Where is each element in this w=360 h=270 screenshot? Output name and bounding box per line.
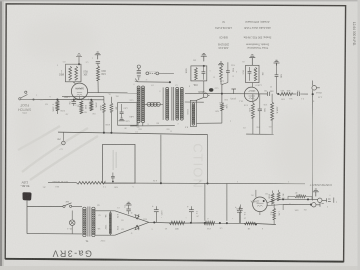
jack J4 — [197, 93, 210, 100]
label B3 — [242, 71, 264, 76]
transformer T1 primary — [83, 207, 86, 236]
node bus183 b — [206, 182, 208, 184]
wire box to tube — [73, 82, 76, 84]
wire drop 207 — [207, 135, 209, 184]
capacitor C12 — [222, 62, 230, 84]
speaker box — [190, 100, 196, 126]
box B1 — [66, 64, 82, 82]
wire box bottom — [197, 122, 222, 124]
capacitor C21 — [187, 206, 197, 223]
edge note text — [352, 22, 356, 46]
node B+ e — [226, 222, 228, 224]
label R12 — [52, 104, 54, 112]
label R9 value — [59, 70, 64, 75]
wire switch to T1 — [72, 205, 82, 207]
capacitor C14 — [258, 94, 262, 118]
resistor R22 — [220, 65, 223, 84]
node R14 — [90, 99, 92, 101]
resistor R32 — [269, 208, 279, 220]
wire C5 to R16 — [97, 63, 99, 66]
transformer T3 secondary — [176, 87, 179, 120]
label heater — [104, 214, 118, 231]
ground G2 — [95, 52, 101, 59]
capacitor C25 — [236, 205, 243, 215]
label R25 — [280, 89, 290, 91]
wire B3 to V4 — [251, 83, 253, 88]
label R23 — [248, 108, 250, 112]
resistor R29 — [244, 222, 255, 229]
ground G7 — [313, 189, 319, 196]
wire J5 down — [312, 97, 314, 201]
resistor R20 — [220, 103, 223, 123]
capacitor C18 — [292, 92, 308, 96]
box B2 — [191, 66, 207, 81]
box shield — [118, 103, 137, 126]
tank top line — [135, 79, 170, 83]
wire plug down — [26, 201, 28, 234]
wire to coil L1 — [138, 78, 140, 81]
label T1 — [85, 239, 89, 243]
label instrument — [309, 183, 331, 187]
pilot lamp PL1 — [66, 211, 75, 234]
label C10 — [230, 97, 236, 99]
transducer coil L1 — [137, 86, 140, 123]
triode V4 — [244, 87, 258, 101]
spring element — [145, 102, 164, 106]
V1 electrodes — [257, 203, 264, 206]
capacitor C15 coupling — [268, 92, 270, 96]
resistor R30 — [268, 191, 274, 205]
pedal box — [102, 126, 139, 188]
wire R16 to rail — [97, 81, 99, 93]
wire heater rail — [62, 95, 104, 97]
node after C15 — [277, 93, 279, 95]
foot switch — [19, 91, 30, 100]
wire drop 160 — [160, 135, 162, 184]
wire jack2 stub — [282, 205, 284, 211]
wire R32 — [273, 204, 275, 224]
label jack — [198, 90, 205, 94]
diode D2 — [115, 222, 149, 235]
label VOL — [192, 83, 197, 86]
wire grid rail left — [88, 92, 139, 94]
triode V2 — [71, 83, 87, 99]
resistor R21 — [195, 68, 198, 80]
wire R23 C14 bottom — [253, 118, 272, 134]
label R24 — [276, 107, 279, 114]
label spring — [151, 101, 156, 103]
resistor R9 — [69, 66, 72, 80]
resistor R14 — [90, 101, 93, 111]
label R20 — [225, 105, 227, 109]
wire drop 204 — [204, 183, 206, 220]
jack J5 — [312, 81, 322, 97]
wire drop 226 — [226, 184, 228, 221]
wire V1 out — [267, 199, 283, 205]
capacitor C13 — [248, 67, 252, 81]
resistor R28 — [204, 221, 215, 229]
label R15 — [99, 105, 101, 111]
label speaker — [186, 109, 188, 115]
transformer T1 secondary — [92, 207, 95, 236]
resistor R31 — [277, 190, 283, 201]
wire C25 — [240, 214, 242, 223]
node jack a — [282, 198, 284, 200]
resistor R25 — [272, 93, 292, 96]
transformer T1 core — [88, 207, 90, 237]
node B+ a — [153, 221, 155, 223]
wire B2 to rail — [203, 81, 205, 94]
label R35 — [280, 74, 282, 78]
ground G4 — [201, 53, 207, 61]
heater winding L2 — [109, 211, 111, 235]
switch SW1 — [63, 200, 72, 207]
node V1 plate — [263, 200, 265, 202]
capacitor C10 — [231, 89, 236, 94]
wire T3 to V3 — [185, 101, 204, 103]
capacitor C24 — [235, 206, 245, 223]
resistor R12 — [56, 101, 59, 115]
label V2 — [75, 87, 84, 90]
wire V3 vertical — [221, 84, 223, 103]
wire ground bus — [58, 132, 208, 135]
transformer T3 secondary b — [180, 87, 183, 120]
transducer coil L1b — [142, 86, 145, 123]
label C22 pair — [219, 80, 224, 85]
diode D1 — [115, 211, 149, 223]
label foot switch — [18, 103, 32, 113]
shield hatch — [137, 74, 141, 77]
label R17 — [114, 106, 116, 109]
wire grid rail right — [185, 92, 267, 95]
node V3 rail — [221, 93, 223, 95]
node C4 — [73, 99, 75, 101]
capacitor C20 — [152, 205, 162, 222]
label C23 pair — [219, 101, 226, 106]
label 12AU7 — [248, 89, 256, 92]
node jack b — [307, 198, 312, 205]
resistor R26 heater — [48, 182, 305, 185]
parts list — [214, 20, 271, 50]
resistor R10 — [75, 66, 78, 80]
resistor R27 — [169, 221, 184, 229]
resistor R17 tall — [110, 97, 113, 133]
transformer T3 secondary c — [0, 0, 1, 1]
node B+ f — [255, 223, 257, 225]
wire B+ rail — [149, 222, 276, 224]
label C16 — [125, 115, 134, 122]
capacitor C16 — [120, 104, 124, 118]
ground G5 — [218, 62, 224, 65]
V2 internal electrodes — [76, 89, 84, 100]
jack J2 — [312, 203, 324, 207]
node bus R17 — [110, 132, 112, 134]
transformer T3 core — [172, 87, 174, 121]
lamp on bus — [56, 132, 65, 149]
node rail A — [56, 99, 58, 101]
node B+ c — [204, 222, 206, 224]
faint pencil marks — [18, 126, 98, 180]
speaker coil — [192, 103, 195, 125]
ground G6 — [249, 55, 255, 65]
power plug — [22, 192, 31, 200]
node tank top — [169, 81, 171, 83]
connector J3 — [137, 65, 140, 70]
misc small labels — [36, 57, 331, 242]
tank bottom line — [130, 125, 175, 127]
node B+ b — [190, 222, 192, 224]
wire jack rail 1 — [276, 198, 318, 200]
chain R35 — [274, 60, 280, 94]
node bus R15 — [103, 132, 105, 134]
node box B1 top — [78, 63, 80, 65]
node B2 top — [203, 65, 205, 67]
label R14 — [94, 102, 96, 108]
T1 secondary wires — [96, 211, 115, 235]
capacitor C11 — [202, 67, 206, 80]
junction blob — [209, 88, 213, 92]
jack J1 — [318, 198, 338, 203]
node footswitch rail — [32, 98, 34, 100]
wire V1 cathode — [256, 212, 260, 225]
triode V1 — [253, 197, 268, 212]
wire jack rail 2 — [283, 204, 312, 206]
ground G3 — [119, 118, 125, 121]
capacitor C17 — [137, 71, 141, 73]
label D1D2 — [130, 211, 132, 233]
resistor R13 — [80, 101, 83, 114]
label R16 — [101, 69, 106, 74]
resistor R16 — [97, 66, 100, 81]
label C15 — [264, 89, 274, 91]
wire plug right — [27, 201, 63, 207]
wire footswitch rail — [21, 99, 105, 101]
resistor R24 — [271, 94, 274, 120]
transformer T3 primary — [166, 87, 169, 120]
label R13 — [84, 105, 86, 110]
label R22 — [232, 68, 234, 77]
label R10 value — [83, 70, 88, 75]
wire bottom loop — [246, 94, 274, 135]
label B2 left — [184, 68, 186, 73]
label C18 — [296, 89, 299, 91]
wire spring to T3 — [162, 87, 164, 120]
label mains — [20, 180, 29, 188]
capacitor C4 — [72, 100, 77, 106]
box B3 — [246, 65, 259, 82]
resistor R15 tall — [103, 97, 106, 133]
resistor R23 — [251, 94, 254, 118]
V4 electrodes — [249, 96, 256, 99]
cable connector row — [146, 70, 159, 75]
label C14 — [263, 108, 265, 112]
wire bottom to T1 — [27, 233, 82, 235]
node bus183 a — [160, 182, 162, 184]
wire V1 up — [256, 190, 264, 201]
resistor R34 — [254, 67, 257, 80]
node B+ d — [219, 222, 221, 224]
faint stamp watermark — [191, 143, 206, 188]
resistor R33 — [288, 195, 312, 199]
label V1 — [250, 199, 259, 202]
ground G1 — [76, 54, 82, 64]
wire L1 bottom — [138, 123, 143, 126]
wire connector right — [159, 72, 174, 74]
capacitor C19 — [123, 202, 132, 214]
label bias row — [52, 180, 68, 183]
label C4 — [68, 102, 79, 108]
capacitor C5 bars — [96, 62, 100, 64]
label LMP — [64, 95, 69, 98]
label R33 — [294, 191, 301, 195]
title GA-3RV — [51, 248, 92, 258]
label tank values — [138, 126, 188, 130]
